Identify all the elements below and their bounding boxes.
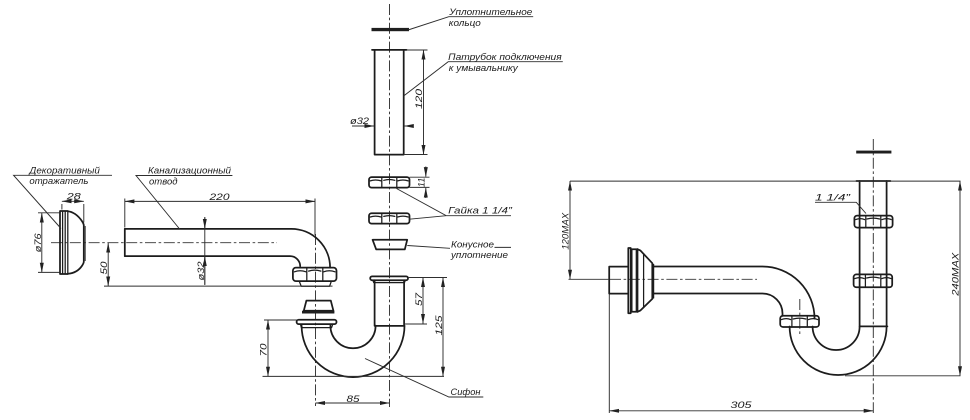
svg-text:к умывальнику: к умывальнику	[449, 63, 519, 73]
svg-text:85: 85	[347, 394, 361, 404]
svg-text:отвод: отвод	[149, 176, 178, 186]
svg-text:кольцо: кольцо	[449, 18, 481, 28]
svg-text:Конусное: Конусное	[451, 240, 494, 250]
svg-text:ø32: ø32	[350, 116, 370, 126]
svg-text:Патрубок подключения: Патрубок подключения	[448, 52, 562, 62]
svg-text:125: 125	[434, 314, 444, 335]
svg-text:отражатель: отражатель	[29, 176, 88, 186]
svg-text:уплотнение: уплотнение	[450, 250, 508, 260]
svg-text:70: 70	[259, 342, 269, 356]
svg-text:120: 120	[414, 88, 424, 109]
svg-text:Декоративный: Декоративный	[28, 166, 100, 176]
svg-text:50: 50	[99, 260, 109, 274]
svg-text:ø32: ø32	[196, 261, 206, 281]
svg-text:Сифон: Сифон	[451, 387, 481, 397]
svg-text:240MAX: 240MAX	[951, 252, 961, 297]
svg-text:Уплотнительное: Уплотнительное	[448, 7, 532, 17]
svg-text:ø76: ø76	[33, 232, 43, 252]
svg-text:28: 28	[65, 192, 81, 202]
svg-text:220: 220	[208, 192, 230, 202]
svg-text:57: 57	[414, 292, 424, 306]
svg-text:Канализационный: Канализационный	[148, 166, 231, 176]
svg-text:Гайка 1 1/4”: Гайка 1 1/4”	[448, 205, 513, 215]
svg-text:1 1/4”: 1 1/4”	[815, 192, 851, 202]
svg-text:305: 305	[731, 400, 753, 410]
svg-text:11: 11	[417, 178, 427, 188]
svg-text:120MAX: 120MAX	[561, 212, 571, 250]
